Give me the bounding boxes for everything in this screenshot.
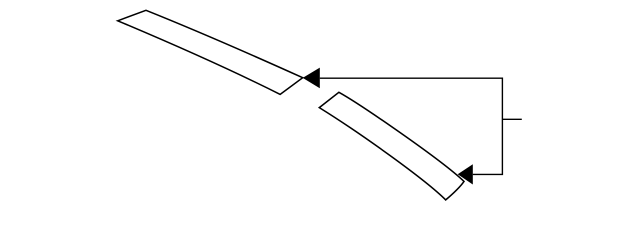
stub tick on vertical wire <box>502 118 521 120</box>
arrowhead on blade 2 tip <box>458 164 473 184</box>
arrowhead on blade 1 tip <box>303 68 320 89</box>
propeller blade 1 (upper-left) <box>118 10 303 94</box>
wire from arrow 1 right, down, to arrow 2 <box>320 78 503 174</box>
propeller blade 2 (lower-right, curved) <box>319 92 464 200</box>
